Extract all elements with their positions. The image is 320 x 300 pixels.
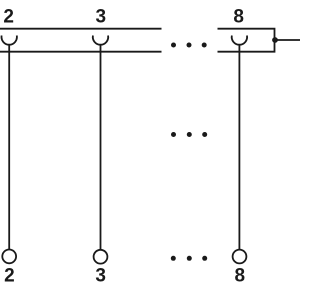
svg-text:8: 8 (235, 265, 246, 286)
svg-text:3: 3 (96, 7, 107, 28)
svg-text:8: 8 (233, 7, 244, 28)
svg-text:2: 2 (4, 265, 15, 286)
svg-text:2: 2 (3, 7, 14, 28)
svg-text:3: 3 (95, 265, 106, 286)
